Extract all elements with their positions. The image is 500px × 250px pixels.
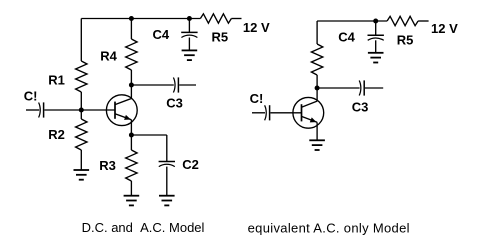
ground below C4 (right) bbox=[368, 53, 384, 63]
capacitor C! (input, right circuit) bbox=[265, 105, 270, 120]
wire rail down to C4 (right) bbox=[375, 21, 377, 35]
svg-text:C4: C4 bbox=[338, 30, 355, 45]
svg-text:12 V: 12 V bbox=[243, 20, 270, 35]
node: collector junction bbox=[129, 83, 134, 88]
wire collector node to transistor (right) bbox=[316, 88, 318, 101]
wire emitter node to C2 bbox=[131, 134, 166, 136]
wire C! to base bbox=[44, 109, 115, 111]
capacitor C2 (emitter bypass) bbox=[159, 162, 175, 167]
svg-text:C!: C! bbox=[24, 89, 38, 104]
resistor R4 bbox=[126, 39, 137, 70]
wire R1 to base node bbox=[80, 92, 82, 110]
capacitor C3 (left circuit output) bbox=[173, 77, 178, 92]
svg-text:R5: R5 bbox=[212, 30, 229, 45]
svg-text:R1: R1 bbox=[48, 73, 65, 88]
wire C4 to ground (right) bbox=[375, 40, 377, 53]
node: rail junction to C4 bbox=[187, 16, 192, 21]
wire input left segment bbox=[26, 109, 39, 111]
node: rail junction to C4 (right) bbox=[373, 19, 378, 24]
wire collector node to transistor bbox=[130, 85, 132, 99]
capacitor C3 (right circuit output) bbox=[359, 80, 364, 95]
svg-text:R4: R4 bbox=[100, 49, 117, 64]
node: rail junction to R4 bbox=[129, 16, 134, 21]
node: collector junction (right) bbox=[315, 86, 320, 91]
svg-text:equivalent A.C. only Model: equivalent A.C. only Model bbox=[248, 220, 410, 235]
svg-text:C3: C3 bbox=[166, 96, 183, 111]
wire rail down to R4 bbox=[130, 19, 132, 40]
svg-text:C2: C2 bbox=[182, 157, 199, 172]
resistor R1 bbox=[76, 61, 87, 92]
capacitor C4 (right circuit) bbox=[368, 35, 384, 40]
wire R5 to 12V terminal bbox=[231, 18, 241, 20]
svg-text:C4: C4 bbox=[153, 27, 170, 42]
resistor R3 bbox=[126, 150, 137, 181]
resistor R2 bbox=[76, 119, 87, 150]
wire rail down to collector resistor (right) bbox=[316, 21, 318, 44]
wire resistor to collector node (right) bbox=[316, 75, 318, 88]
wire R4 to collector node bbox=[130, 70, 132, 85]
wire C! to base (right) bbox=[270, 112, 301, 114]
wire R5 to 12V terminal (right) bbox=[418, 20, 429, 22]
svg-text:R3: R3 bbox=[99, 158, 116, 173]
ground below emitter (right) bbox=[309, 140, 325, 150]
capacitor C4 (left circuit) bbox=[181, 32, 197, 37]
wire C3 output terminal (right) bbox=[365, 87, 383, 89]
capacitor C! (input, left circuit) bbox=[39, 102, 44, 117]
wire C2 to ground bbox=[166, 167, 168, 196]
wire collector node to C3 (right) bbox=[317, 87, 360, 89]
wire emitter to emitter node bbox=[130, 120, 132, 135]
wire C4 to ground bbox=[188, 38, 190, 51]
svg-text:D.C. and A.C. Model: D.C. and A.C. Model bbox=[82, 220, 205, 235]
wire rail down to R1 bbox=[80, 19, 82, 62]
transistor Q2 (right circuit NPN) bbox=[293, 97, 324, 128]
ground below R2 bbox=[74, 170, 90, 180]
resistor R5 (left circuit) bbox=[200, 14, 231, 23]
resistor (collector load, right circuit) bbox=[311, 44, 322, 75]
transistor Q1 (left circuit NPN) bbox=[106, 95, 137, 126]
node: emitter junction bbox=[129, 133, 134, 138]
wire C3 output terminal bbox=[179, 84, 196, 86]
svg-text:C3: C3 bbox=[352, 100, 369, 115]
svg-text:R2: R2 bbox=[48, 127, 65, 142]
svg-text:12 V: 12 V bbox=[431, 21, 458, 36]
wire input left segment (right circuit) bbox=[252, 112, 265, 114]
wire R2 to ground bbox=[80, 150, 82, 170]
ground below R3 bbox=[124, 196, 140, 206]
wire R3 to ground bbox=[130, 181, 132, 196]
wire emitter node to R3 bbox=[130, 135, 132, 150]
resistor R5 (right circuit) bbox=[387, 16, 418, 25]
svg-text:C!: C! bbox=[250, 91, 264, 106]
node: base junction R1/R2 bbox=[79, 108, 84, 113]
wire emitter to ground (right) bbox=[316, 122, 318, 140]
wire base node down to R2 bbox=[80, 110, 82, 119]
wire top rail left circuit bbox=[81, 18, 200, 20]
svg-text:R5: R5 bbox=[397, 33, 414, 48]
ground below C4 (left) bbox=[182, 50, 198, 60]
wire down to C2 bbox=[166, 135, 168, 162]
wire top rail right circuit bbox=[317, 20, 387, 22]
ground below C2 bbox=[159, 196, 175, 206]
wire rail down to C4 (left) bbox=[188, 19, 190, 33]
wire collector node to C3 bbox=[131, 84, 173, 86]
